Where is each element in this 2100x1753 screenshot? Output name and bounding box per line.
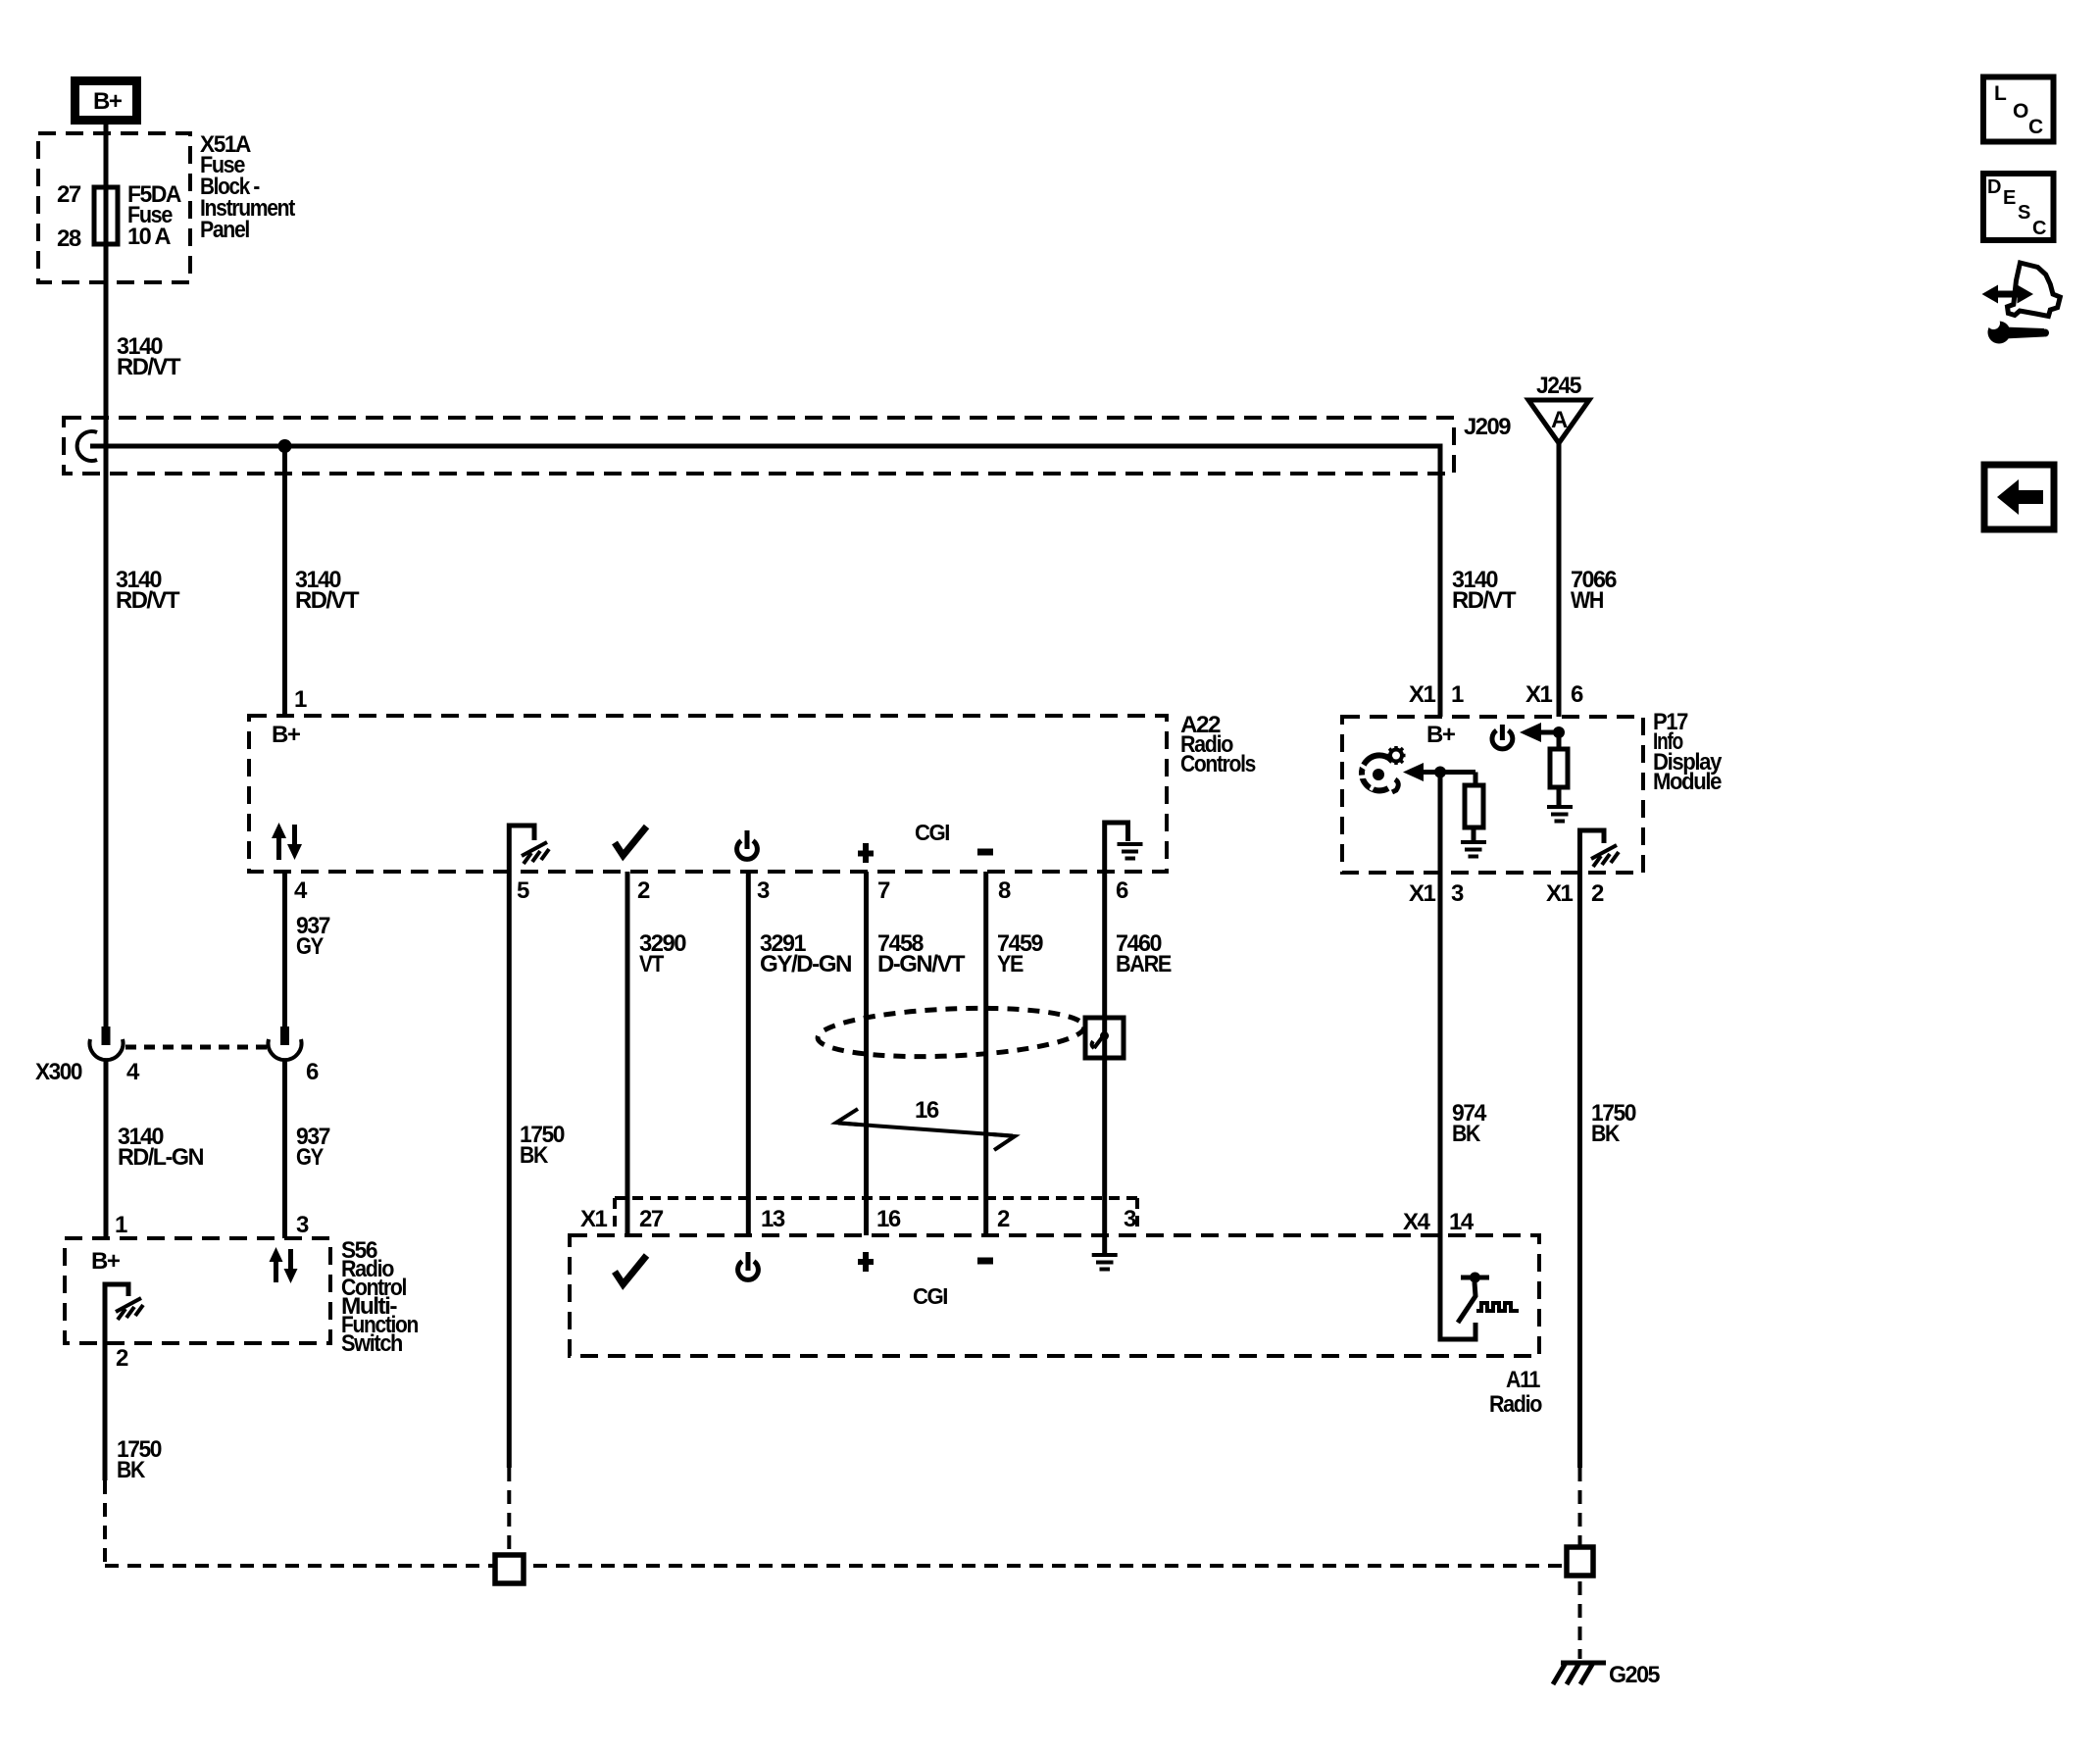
splice terminal cup bbox=[77, 431, 97, 461]
svg-text:VT: VT bbox=[639, 951, 665, 977]
svg-text:3: 3 bbox=[1451, 880, 1464, 907]
wire label 7459 YE bbox=[997, 930, 1043, 977]
svg-text:BK: BK bbox=[520, 1142, 549, 1169]
P17 resistor right bbox=[1550, 749, 1568, 787]
svg-text:B+: B+ bbox=[93, 88, 123, 115]
wire 3140 RD/L-GN X300 to S56 bbox=[104, 1061, 109, 1238]
wire 1750 BK P17 X1-2 down bbox=[1577, 873, 1582, 1468]
dashed wire S56 pin2 to bus bbox=[103, 1480, 107, 1564]
A11 power icon bbox=[738, 1252, 759, 1279]
P17 internal ground wire X1-2 bbox=[1580, 830, 1605, 873]
S56 dashed box bbox=[65, 1238, 330, 1343]
A11 check mark icon bbox=[615, 1256, 647, 1285]
antenna triangle J245 bbox=[1528, 400, 1589, 443]
svg-text:2: 2 bbox=[1591, 880, 1604, 907]
svg-text:BK: BK bbox=[1591, 1121, 1621, 1147]
P17 wire X1-3 down bbox=[1438, 773, 1443, 874]
svg-text:5: 5 bbox=[517, 877, 529, 904]
P17 wire resistor to ground left bbox=[1472, 827, 1476, 841]
svg-text:J209: J209 bbox=[1464, 414, 1511, 440]
X300 cup 6 bbox=[269, 1039, 302, 1060]
wire antenna to P17 X1-6 (7066 WH) bbox=[1557, 443, 1562, 717]
svg-text:C: C bbox=[2028, 116, 2043, 138]
svg-text:2: 2 bbox=[116, 1345, 128, 1372]
fuse value label bbox=[127, 181, 181, 250]
svg-text:BK: BK bbox=[117, 1457, 146, 1483]
A22 power icon bbox=[737, 830, 758, 859]
A22 CGI minus icon bbox=[977, 849, 993, 856]
P17 gauge icon bbox=[1355, 746, 1406, 792]
A22 CGI plus icon bbox=[858, 843, 874, 863]
svg-text:14: 14 bbox=[1449, 1209, 1475, 1235]
svg-text:X1: X1 bbox=[1546, 880, 1574, 907]
svg-text:1: 1 bbox=[1451, 681, 1464, 708]
wire label 7460 BARE bbox=[1116, 930, 1172, 977]
X300 terminal blade 4 bbox=[102, 1027, 111, 1045]
ground bus dashed bbox=[105, 1564, 1564, 1568]
A11 earth ground bars pin3 bbox=[1092, 1255, 1118, 1270]
wire 3290 VT bbox=[625, 872, 630, 1235]
svg-text:G205: G205 bbox=[1609, 1662, 1660, 1688]
P17 dashed box bbox=[1342, 717, 1643, 873]
S56 name label bbox=[341, 1237, 419, 1357]
twisted pair ellipse bbox=[817, 1003, 1085, 1061]
svg-text:YE: YE bbox=[997, 951, 1024, 977]
P17 wire X1-6 to resistor bbox=[1557, 732, 1562, 749]
dashed wire A22 pin5 to bus bbox=[507, 1468, 511, 1553]
svg-text:GY: GY bbox=[296, 933, 324, 960]
svg-text:27: 27 bbox=[639, 1206, 664, 1232]
S56 internal ground wire bbox=[105, 1284, 128, 1344]
svg-text:GY: GY bbox=[296, 1144, 324, 1171]
wire 1750 BK S56 pin2 bbox=[103, 1343, 108, 1480]
svg-text:X300: X300 bbox=[35, 1059, 82, 1085]
svg-text:X1: X1 bbox=[1525, 681, 1553, 708]
svg-text:J245: J245 bbox=[1536, 373, 1581, 399]
A11 name label bbox=[1489, 1367, 1542, 1418]
J209 splice pack dashed box bbox=[64, 418, 1454, 474]
svg-text:2: 2 bbox=[997, 1206, 1010, 1232]
back arrow box bbox=[1984, 465, 2054, 529]
svg-text:C: C bbox=[2032, 218, 2046, 239]
svg-text:X1: X1 bbox=[580, 1206, 608, 1232]
svg-text:O: O bbox=[2013, 100, 2028, 123]
B+ power symbol box bbox=[75, 81, 137, 121]
A22 dashed box bbox=[249, 716, 1167, 872]
wire 7460 BARE bbox=[1102, 872, 1107, 1255]
A22 pin numbers bbox=[294, 877, 1128, 904]
wire junction to A22 pin 1 bbox=[282, 446, 287, 716]
wire label 3140 RD/VT left bbox=[116, 567, 180, 614]
svg-text:WH: WH bbox=[1571, 587, 1603, 614]
wire label 3140 RD/L-GN bbox=[118, 1124, 203, 1171]
shield drain symbol bbox=[1092, 1031, 1109, 1048]
wire label 3140 RD/VT upper bbox=[117, 333, 181, 380]
DESC hotlink box bbox=[1983, 174, 2054, 240]
A11 CGI plus icon bbox=[858, 1252, 874, 1272]
bus wire to P17 bbox=[90, 446, 1440, 717]
wire label 1750 BK bbox=[520, 1122, 565, 1169]
wire 937 GY A22 pin4 to X300 bbox=[282, 872, 287, 1027]
svg-text:B+: B+ bbox=[1426, 722, 1456, 748]
G205 chassis ground bbox=[1553, 1663, 1606, 1684]
svg-text:3: 3 bbox=[757, 877, 770, 904]
bus junction square right bbox=[1567, 1547, 1593, 1576]
A22 seek icon (check mark) bbox=[615, 826, 647, 856]
A11 X1 left tick bbox=[613, 1198, 617, 1227]
P17 X1-3 junction dot bbox=[1434, 767, 1446, 778]
shield drain square bbox=[1085, 1018, 1124, 1058]
svg-text:A: A bbox=[1551, 407, 1568, 433]
A11 serial data icon bbox=[1458, 1273, 1519, 1324]
svg-text:1: 1 bbox=[115, 1212, 127, 1238]
X300 terminal blade 6 bbox=[280, 1027, 289, 1045]
svg-text:CGI: CGI bbox=[913, 1283, 947, 1309]
svg-text:6: 6 bbox=[306, 1059, 319, 1085]
svg-text:D-GN/VT: D-GN/VT bbox=[877, 951, 966, 977]
svg-text:D: D bbox=[1987, 176, 2001, 198]
svg-text:RD/VT: RD/VT bbox=[1452, 587, 1517, 614]
svg-text:Controls: Controls bbox=[1180, 751, 1256, 777]
svg-text:E: E bbox=[2003, 187, 2016, 209]
svg-text:16: 16 bbox=[915, 1097, 939, 1124]
wire label 3291 GY/D-GN bbox=[760, 930, 851, 977]
A11 X1 connector dashed line bbox=[615, 1196, 1137, 1200]
P17 earth ground left bbox=[1461, 842, 1486, 857]
svg-text:6: 6 bbox=[1571, 681, 1583, 708]
svg-text:Panel: Panel bbox=[200, 217, 249, 243]
svg-text:8: 8 bbox=[998, 877, 1011, 904]
svg-text:CGI: CGI bbox=[915, 820, 949, 845]
svg-text:X4: X4 bbox=[1403, 1209, 1431, 1235]
wire label 3290 VT bbox=[639, 930, 686, 977]
P17 name label bbox=[1653, 709, 1723, 795]
svg-text:X1: X1 bbox=[1409, 880, 1436, 907]
svg-text:BARE: BARE bbox=[1116, 951, 1172, 977]
svg-text:Switch: Switch bbox=[341, 1330, 403, 1357]
P17 X1-6 junction dot bbox=[1553, 726, 1565, 738]
svg-text:RD/VT: RD/VT bbox=[117, 354, 181, 380]
svg-text:13: 13 bbox=[761, 1206, 785, 1232]
A22 pin5 internal ground wire bbox=[509, 826, 534, 872]
wire 7458 D-GN/VT bbox=[864, 872, 869, 1235]
wire 974 BK P17 to A11 bbox=[1438, 873, 1443, 1235]
A22 pin6 earth ground bars bbox=[1118, 844, 1143, 859]
P17 resistor left bbox=[1465, 785, 1483, 827]
P17 power arrow bbox=[1520, 723, 1559, 742]
svg-text:16: 16 bbox=[876, 1206, 901, 1232]
svg-text:1: 1 bbox=[294, 686, 307, 713]
16 twists leader bbox=[836, 1109, 1015, 1150]
wire label 1750 BK lower left bbox=[117, 1436, 162, 1483]
wire label 3140 RD/VT right bbox=[1452, 567, 1517, 614]
svg-text:10 A: 10 A bbox=[127, 224, 171, 250]
A11 CGI minus icon bbox=[977, 1258, 993, 1265]
svg-text:Module: Module bbox=[1653, 769, 1722, 795]
A22 pin5 chassis ground hatch bbox=[522, 842, 549, 864]
P17 chassis ground hatch bbox=[1591, 845, 1619, 867]
svg-text:GY/D-GN: GY/D-GN bbox=[760, 951, 851, 977]
P17 gauge arrow bbox=[1403, 763, 1475, 781]
P17 wire resistor to ground bbox=[1557, 787, 1562, 806]
wire 1750 BK A22 pin5 bbox=[507, 872, 512, 1468]
svg-text:28: 28 bbox=[57, 225, 81, 252]
S56 chassis ground hatch bbox=[116, 1298, 143, 1320]
svg-text:7: 7 bbox=[877, 877, 890, 904]
svg-text:3: 3 bbox=[296, 1212, 309, 1238]
wire 937 GY X300 to S56 bbox=[282, 1061, 287, 1238]
dashed wire P17 1750 BK to bus bbox=[1578, 1468, 1582, 1547]
svg-text:S: S bbox=[2018, 202, 2030, 224]
svg-text:B+: B+ bbox=[91, 1248, 121, 1275]
fuse block X51A dashed box bbox=[38, 133, 190, 282]
vehicle data icon bbox=[1982, 263, 2061, 344]
bus junction square left bbox=[495, 1555, 524, 1583]
junction dot bbox=[278, 439, 292, 453]
svg-text:RD/L-GN: RD/L-GN bbox=[118, 1144, 203, 1171]
wire label 7066 WH bbox=[1571, 567, 1617, 614]
wire label 937 GY lower bbox=[296, 1124, 330, 1171]
A22 up/down arrows icon bbox=[272, 823, 302, 860]
X300 cup 4 bbox=[89, 1039, 123, 1060]
wire label 974 BK bbox=[1452, 1100, 1487, 1147]
wire label 1750 BK right bbox=[1591, 1100, 1636, 1147]
svg-text:6: 6 bbox=[1116, 877, 1128, 904]
wire label 3140 RD/VT center bbox=[295, 567, 360, 614]
wire 3291 GY/D-GN bbox=[746, 872, 751, 1235]
svg-text:3: 3 bbox=[1124, 1206, 1136, 1232]
wire label 7458 D-GN/VT bbox=[877, 930, 966, 977]
svg-text:Radio: Radio bbox=[1489, 1391, 1542, 1418]
P17 earth ground right bbox=[1547, 807, 1573, 822]
A11 serial data wire bbox=[1440, 1235, 1475, 1339]
fuse F5DA 10A bbox=[94, 187, 118, 244]
LOC hotlink box bbox=[1983, 77, 2054, 142]
svg-text:A11: A11 bbox=[1506, 1367, 1540, 1393]
svg-text:L: L bbox=[1994, 82, 2007, 105]
A22 name label bbox=[1180, 712, 1256, 777]
wire B+ feed vertical (3140 RD/VT) bbox=[104, 125, 109, 1027]
A22 pin6 internal ground wire bbox=[1105, 823, 1128, 872]
X300 dashed link bbox=[125, 1045, 267, 1050]
fuse block name label bbox=[200, 131, 295, 243]
wire label 937 GY bbox=[296, 913, 330, 960]
P17 power icon bbox=[1492, 725, 1513, 749]
svg-text:RD/VT: RD/VT bbox=[295, 587, 360, 614]
svg-text:B+: B+ bbox=[272, 722, 301, 748]
svg-text:BK: BK bbox=[1452, 1121, 1481, 1147]
wire 7459 YE bbox=[983, 872, 988, 1235]
svg-text:RD/VT: RD/VT bbox=[116, 587, 180, 614]
dashed wire bus to G205 bbox=[1578, 1581, 1582, 1659]
svg-text:X1: X1 bbox=[1409, 681, 1436, 708]
svg-text:2: 2 bbox=[637, 877, 650, 904]
A11 X1 right tick bbox=[1135, 1198, 1139, 1227]
S56 up/down arrows icon bbox=[270, 1247, 298, 1283]
svg-text:27: 27 bbox=[57, 181, 81, 208]
A11 dashed box bbox=[570, 1235, 1539, 1356]
P17 wire junction to resistor left bbox=[1474, 773, 1478, 786]
